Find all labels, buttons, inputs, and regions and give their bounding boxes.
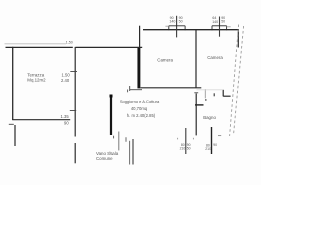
window A outer line [169,25,185,27]
svg-text:h. m 2.40(2.85): h. m 2.40(2.85) [127,113,156,118]
window A left extension [165,25,168,27]
right exterior wall stub [237,29,239,47]
roof dashed line 2 [234,26,244,134]
stair double wall right [132,139,134,165]
door jamb tick right [125,137,127,142]
svg-text:Comune: Comune [96,156,113,161]
cameras top wall [143,29,239,31]
svg-text:140: 140 [169,20,175,24]
svg-text:1,50: 1,50 [66,41,73,45]
window B right jamb [226,26,228,30]
terrace left wall [12,47,14,120]
niche tick vertical [129,86,131,91]
svg-text:Soggiorno e A.Cottura: Soggiorno e A.Cottura [120,99,160,104]
bagno corner horizontal [223,95,230,97]
svg-text:210: 210 [205,147,211,151]
bold interior wall [110,95,112,136]
window A right jamb [184,26,186,30]
gray vertical near stair [118,132,120,151]
svg-text:40,70mq: 40,70mq [131,106,148,111]
window B left jamb [211,26,213,30]
svg-text:Bagno: Bagno [203,115,216,120]
bagno fixture dash [195,104,204,106]
faint door swing mark [110,152,113,155]
small tick left lower [9,123,14,125]
bagno faint top line [197,89,223,91]
svg-text:210: 210 [180,146,186,150]
main top-left wall [76,46,143,48]
camera divider wall upper [195,30,197,88]
svg-text:1.35: 1.35 [61,114,70,119]
svg-text:90: 90 [213,143,217,147]
svg-text:50: 50 [187,146,191,150]
door D1 dim tick left [177,138,179,140]
svg-text:Camera: Camera [207,55,223,60]
bagno dot [205,99,207,100]
terrace bottom wall [12,119,70,121]
terrace parapet faint upper line [5,43,67,45]
tick near bagno bottom [218,135,221,137]
window B outer line [212,25,227,27]
svg-text:Camera: Camera [157,58,173,63]
window B right extension [227,26,231,28]
svg-text:2.40: 2.40 [61,78,70,83]
svg-text:90: 90 [64,120,69,125]
door D1 dim tick right [192,138,194,140]
window A centre mullion [176,16,178,38]
door jamb tick left [113,136,115,139]
stair double wall left [129,141,131,165]
svg-text:Mq.12m2: Mq.12m2 [27,78,46,83]
window A left jamb [168,26,170,30]
svg-text:140: 140 [212,20,218,24]
svg-text:50: 50 [221,20,225,24]
terrace top wall [6,46,73,48]
bagno tick mid [213,93,215,96]
door D2 leaf line [211,127,213,154]
upper thin vertical at facade step [139,26,141,48]
bagno left wall [195,94,197,136]
bagno faint vertical [204,89,206,98]
roof dashed line 1 [230,25,239,137]
terrace right wall upper [74,47,76,137]
terrace right wall lower [74,143,76,163]
window B centre mullion [219,17,221,37]
thick wall soggiorno/camera [137,48,140,89]
svg-text:50: 50 [179,19,183,23]
svg-text:Vano Scala: Vano Scala [96,151,119,156]
niche lower tick [127,90,129,93]
bagno door jamb tick [194,92,198,94]
bagno corner vertical [222,90,224,97]
tick on terrace right wall lower [70,110,76,112]
tick on terrace right wall upper [70,71,77,73]
niche horizontal [130,89,142,91]
blob at top of bold wall [110,95,113,98]
door D1 leaf line [185,128,187,154]
lower left wall [14,125,16,146]
camera bottom wall [141,87,202,89]
